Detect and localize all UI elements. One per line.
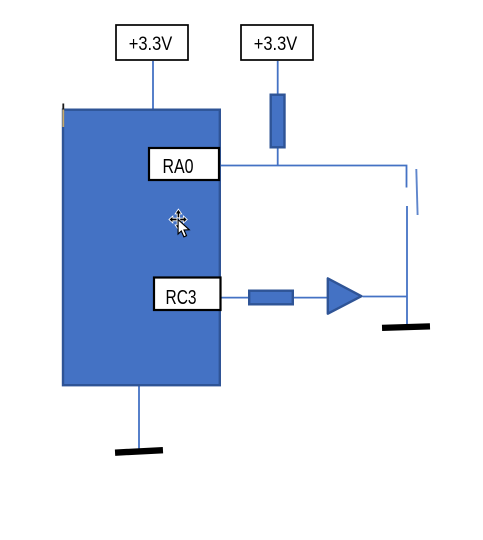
wire from +3.3V (left) to microcontroller top xyxy=(152,61,154,109)
wire from RA0 pin to switch (node A) xyxy=(220,166,407,188)
wire from RC3 pin to resistor R2 xyxy=(221,297,248,299)
mouse pointer arrow xyxy=(178,220,189,237)
power label +3.3V (left) xyxy=(116,25,188,60)
wire from microcontroller bottom to ground (bottom) xyxy=(138,386,140,449)
pin label RC3 xyxy=(154,278,221,311)
wire from resistor R2 to buffer input xyxy=(294,297,327,299)
wire from +3.3V (right) to resistor R1 top xyxy=(277,61,279,94)
resistor R1 (vertical, pull-up) xyxy=(271,95,285,148)
text caret at top-left of U1 xyxy=(62,104,64,110)
move cursor (four-way arrows) xyxy=(170,210,187,229)
svg-text:+3.3V: +3.3V xyxy=(254,34,298,55)
buffer / driver triangle xyxy=(328,278,362,313)
wire from buffer output to switch net xyxy=(363,296,408,298)
resistor R2 (horizontal, series) xyxy=(249,291,293,305)
ground (right) xyxy=(382,323,430,331)
ground (bottom) xyxy=(115,447,163,456)
svg-text:+3.3V: +3.3V xyxy=(129,34,173,55)
wire from switch bottom to ground (right) xyxy=(406,206,408,324)
svg-text:RC3: RC3 xyxy=(166,287,197,309)
svg-text:RA0: RA0 xyxy=(163,156,194,178)
pin label RA0 xyxy=(149,148,219,180)
power label +3.3V (right) xyxy=(241,25,313,60)
switch arm (node A) xyxy=(416,169,417,215)
microcontroller U1 xyxy=(63,110,220,386)
wire from resistor R1 bottom to RA0 net xyxy=(277,148,279,166)
